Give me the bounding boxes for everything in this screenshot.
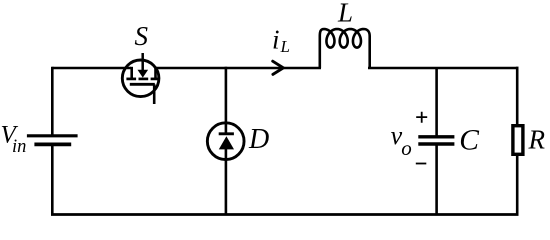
diode D cathode bar — [219, 132, 234, 135]
inductor L coil — [320, 29, 370, 68]
label minus polarity — [416, 163, 427, 165]
node diode junction / diode branch upper wire — [225, 67, 228, 133]
transistor S drain contact drop — [130, 67, 133, 79]
diode D anode triangle — [219, 136, 234, 149]
diode D circle — [207, 123, 244, 160]
svg-text:i: i — [272, 25, 280, 55]
battery Vin top plate — [27, 134, 78, 137]
wire top-left (Vin to switch) — [52, 67, 131, 70]
svg-text:L: L — [280, 37, 290, 56]
resistor R box — [513, 126, 523, 155]
capacitor C bottom plate — [418, 142, 454, 145]
wire right rail lower — [516, 156, 519, 215]
current arrow iL — [273, 61, 284, 74]
transistor S bulk arrowhead — [138, 70, 149, 78]
wire switch to inductor — [156, 67, 322, 70]
transistor S bulk arrow shaft — [141, 53, 144, 70]
label plus polarity — [416, 112, 427, 123]
transistor S middle channel pad — [139, 78, 149, 81]
transistor S gate lead — [153, 84, 156, 104]
svg-text:in: in — [12, 137, 26, 157]
wire capacitor branch upper — [435, 68, 438, 136]
wire left rail upper — [51, 67, 54, 135]
wire right rail upper — [516, 67, 519, 125]
transistor S circle — [122, 60, 159, 97]
wire left rail lower — [51, 146, 54, 215]
wire bottom — [51, 213, 519, 216]
wire inductor to right rail — [368, 67, 519, 70]
svg-text:D: D — [248, 124, 269, 155]
transistor S right channel pad — [151, 78, 160, 81]
svg-text:R: R — [528, 125, 546, 155]
battery Vin bottom plate — [34, 142, 71, 146]
svg-text:L: L — [337, 0, 353, 28]
transistor S left channel pad — [126, 78, 136, 81]
svg-text:C: C — [459, 124, 479, 156]
wire capacitor branch lower — [435, 145, 438, 216]
svg-text:o: o — [401, 136, 412, 160]
svg-text:S: S — [135, 21, 149, 51]
capacitor C top plate — [418, 135, 454, 138]
transistor S gate line — [130, 83, 155, 86]
transistor S source contact drop — [154, 67, 157, 79]
diode branch lower wire — [225, 148, 228, 215]
